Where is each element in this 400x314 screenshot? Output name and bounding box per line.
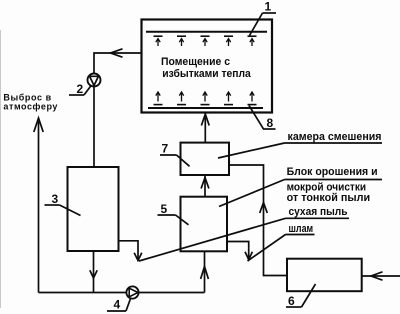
label mixing chamber leader <box>285 142 383 144</box>
label 1 leader <box>263 12 277 14</box>
label 8 leader <box>263 128 276 130</box>
box 7 (mixing chamber) <box>181 143 230 175</box>
arrowhead down on drain <box>90 270 97 278</box>
wire box 7 to room <box>204 113 206 143</box>
wire pump 4 up to box 5 <box>204 251 206 292</box>
box 3 (dry dust collector) <box>68 167 119 251</box>
pump 4 <box>126 286 138 298</box>
arrowhead down dust outlet <box>134 253 142 261</box>
ceiling up-arrows <box>156 39 254 46</box>
floor diffuser dashes <box>154 104 257 106</box>
sludge outlet wire from box 5 <box>227 242 249 260</box>
label scrubber leader <box>285 179 383 181</box>
label sludge leader <box>286 234 315 236</box>
svg-text:шлам: шлам <box>289 223 314 235</box>
svg-text:2: 2 <box>77 82 84 96</box>
svg-text:камера смешения: камера смешения <box>288 131 382 143</box>
floor up-arrows <box>156 92 254 102</box>
room box (heat-excess room) <box>142 20 273 113</box>
arrowhead up between 5 and 7 <box>201 178 209 189</box>
box 5 (wet scrubber) <box>181 197 228 252</box>
bottom slurry wire <box>39 292 205 294</box>
svg-text:от тонкой пыли: от тонкой пыли <box>287 192 371 204</box>
wire box 6 to box 7 <box>229 165 287 276</box>
svg-text:атмосферу: атмосферу <box>3 101 57 111</box>
label 3 leader <box>45 204 60 206</box>
label 2 leader <box>69 94 84 96</box>
svg-text:Блок орошения и: Блок орошения и <box>287 166 378 178</box>
svg-text:4: 4 <box>114 298 121 312</box>
wire box 3 dry dust outlet <box>119 241 139 261</box>
svg-text:3: 3 <box>52 192 59 206</box>
label dry dust leader <box>286 217 350 219</box>
svg-text:Помещение с: Помещение с <box>161 56 230 68</box>
fan 2 <box>88 74 101 87</box>
svg-text:7: 7 <box>162 142 169 156</box>
arrowhead up into room <box>201 114 209 126</box>
arrowhead down sludge <box>245 252 252 260</box>
wire box 5 to box 7 <box>204 175 206 197</box>
svg-text:сухая пыль: сухая пыль <box>289 206 348 218</box>
arrowhead left water inlet <box>371 272 383 280</box>
floor line inside room <box>148 107 263 109</box>
svg-text:избытками тепла: избытками тепла <box>162 68 251 80</box>
water inlet wire to box 6 <box>362 275 400 277</box>
arrowhead up exhaust <box>34 118 43 132</box>
arrowhead left on wire <box>111 49 123 57</box>
wire fan 2 to box 3 <box>93 87 95 168</box>
label 4 leader <box>107 310 126 312</box>
arrowhead up on riser <box>260 203 268 214</box>
svg-text:5: 5 <box>161 202 168 216</box>
box 6 (water tank) <box>287 259 362 292</box>
wire box 3 drain down <box>93 251 95 293</box>
label 5 leader <box>158 214 176 216</box>
label 7 leader <box>160 154 177 156</box>
svg-text:1: 1 <box>265 0 272 14</box>
ceiling diffuser dashes <box>154 35 257 37</box>
label 6 leader <box>286 306 302 308</box>
wire room to fan 2 <box>94 53 142 74</box>
svg-text:8: 8 <box>267 116 274 130</box>
arrowhead up into box 5 <box>201 267 209 280</box>
ceiling line inside room <box>146 31 267 33</box>
exhaust stack wire <box>38 118 40 293</box>
svg-text:6: 6 <box>288 294 295 308</box>
